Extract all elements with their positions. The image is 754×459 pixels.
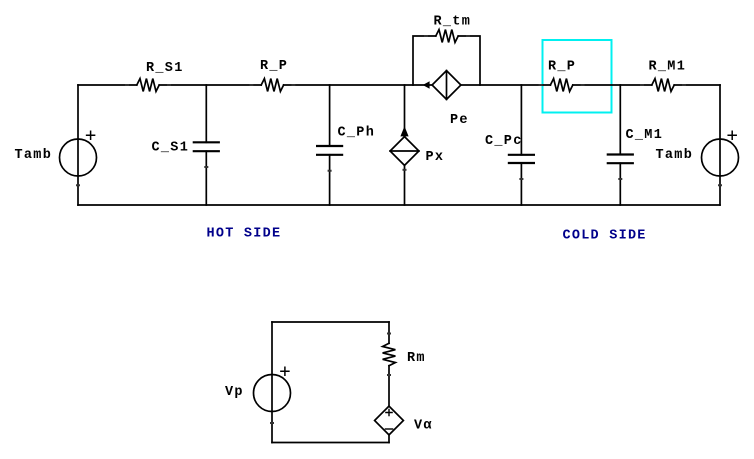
- wire C_M1 branch upper: [619, 85, 621, 155]
- wire C_S1 branch upper: [205, 85, 207, 142]
- wire Rm to Valpha: [388, 366, 390, 406]
- Vp plus sign: [281, 367, 289, 375]
- voltage source Valpha diamond: [375, 406, 404, 435]
- voltage source Tamb (right): [702, 139, 739, 176]
- svg-text:C_Pc: C_Pc: [485, 134, 523, 149]
- wire C_Ph branch upper: [329, 85, 331, 146]
- Px arrow: [400, 126, 408, 136]
- capacitor C_Pc: [509, 155, 534, 163]
- wire Rm upper lead: [388, 322, 390, 343]
- capacitor C_Ph: [317, 146, 342, 155]
- wire top between Pe and R_P cold: [461, 84, 551, 86]
- Valpha minus sign: [385, 428, 392, 430]
- voltage source Vp: [254, 375, 291, 412]
- svg-text:COLD SIDE: COLD SIDE: [563, 229, 647, 244]
- capacitor C_S1: [194, 142, 219, 151]
- wire C_Ph branch lower: [329, 155, 331, 205]
- wire C_Pc branch upper: [520, 85, 522, 155]
- svg-text:C_M1: C_M1: [626, 128, 664, 143]
- wire lower circuit top: [272, 321, 389, 323]
- resistor R_tm: [436, 30, 458, 43]
- svg-text:R_tm: R_tm: [434, 15, 472, 30]
- svg-text:R_S1: R_S1: [146, 61, 184, 76]
- svg-text:R_P: R_P: [548, 60, 576, 75]
- resistor R_S1: [137, 79, 159, 92]
- svg-text:Pe: Pe: [450, 113, 469, 128]
- svg-text:C_Ph: C_Ph: [338, 126, 376, 141]
- resistor R_P (hot side): [261, 79, 283, 92]
- wire Px branch lower: [404, 165, 406, 205]
- wire C_Pc branch lower: [520, 163, 522, 205]
- svg-text:Px: Px: [426, 150, 445, 165]
- wire C_S1 branch lower: [205, 151, 207, 205]
- current source Px diamond: [390, 137, 419, 166]
- resistor R_M1: [652, 79, 674, 92]
- wire right vertical branch: [719, 85, 721, 205]
- wire lower circuit left vertical: [271, 322, 273, 443]
- Px internal line: [390, 150, 419, 152]
- resistor R_P (cold side, in cyan box): [550, 79, 572, 92]
- resistor Rm: [383, 343, 396, 365]
- Pe internal line: [446, 71, 448, 100]
- Tamb right plus sign: [728, 131, 736, 139]
- wire top right segment: [674, 84, 720, 86]
- svg-text:R_P: R_P: [260, 59, 288, 74]
- svg-text:Vα: Vα: [414, 419, 433, 434]
- svg-text:R_M1: R_M1: [649, 60, 687, 75]
- svg-text:Rm: Rm: [407, 351, 426, 366]
- wire lower circuit bottom: [272, 442, 389, 444]
- wire top between R_S1 and R_P: [159, 84, 261, 86]
- svg-text:HOT SIDE: HOT SIDE: [207, 227, 282, 242]
- wire left vertical branch: [77, 85, 79, 205]
- highlight box (cyan selection rectangle): [543, 40, 612, 113]
- wire top between R_P and Pe: [284, 84, 433, 86]
- wire top left segment: [78, 84, 137, 86]
- Tamb left plus sign: [87, 131, 95, 139]
- voltage source Tamb (left): [60, 139, 97, 176]
- svg-text:Tamb: Tamb: [15, 148, 53, 163]
- wire Px branch upper: [404, 85, 406, 137]
- wire R_tm loop right vertical: [458, 36, 480, 85]
- capacitor C_M1: [608, 155, 633, 164]
- wire Valpha to bottom: [388, 435, 390, 443]
- wire bottom rail: [78, 204, 720, 206]
- svg-text:Vp: Vp: [225, 385, 244, 400]
- wire C_M1 branch lower: [619, 163, 621, 205]
- Pe arrow: [423, 81, 430, 89]
- Valpha plus sign: [386, 409, 392, 415]
- svg-text:C_S1: C_S1: [152, 141, 190, 156]
- svg-text:Tamb: Tamb: [656, 148, 694, 163]
- wire R_tm loop left vertical: [413, 36, 436, 85]
- pin tick marks: [76, 36, 722, 423]
- current source Pe diamond: [432, 71, 461, 100]
- wire top between R_P cold and R_M1: [573, 84, 652, 86]
